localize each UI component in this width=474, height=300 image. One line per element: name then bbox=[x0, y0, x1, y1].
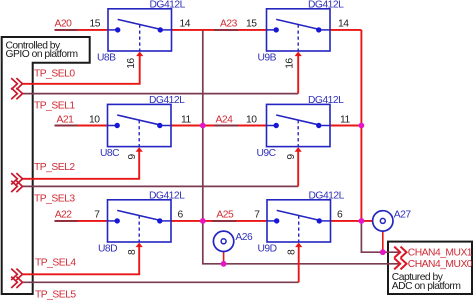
svg-text:U9B: U9B bbox=[258, 53, 277, 64]
U9D pin 7 stub bbox=[267, 220, 275, 222]
wire U9C pin 11 output bbox=[330, 125, 361, 127]
U9C right contact dot bbox=[316, 123, 321, 128]
svg-text:14: 14 bbox=[180, 19, 191, 30]
wire net label A25 underline bbox=[212, 220, 236, 222]
analog switch U8C (DG412L) bbox=[89, 95, 191, 160]
U8C control dashed line bbox=[138, 120, 140, 147]
svg-text:9: 9 bbox=[127, 154, 138, 160]
wire testpoint A26 stub bbox=[223, 252, 225, 264]
svg-text:14: 14 bbox=[338, 19, 349, 30]
off-page connector CHAN4_MUX0 bbox=[394, 258, 406, 269]
U8B pin 15 stub bbox=[108, 29, 116, 31]
wire net label A23 underline bbox=[214, 29, 238, 31]
U8B pin 14 stub bbox=[163, 29, 172, 31]
U8C left contact dot bbox=[115, 123, 120, 128]
wire U9B pin 14 output bbox=[330, 29, 361, 31]
wire TP_SEL4 to U8D control pin 8 bbox=[22, 247, 139, 274]
wire CHAN4_MUX1: from junction down and right to connector bbox=[361, 221, 400, 252]
svg-text:10: 10 bbox=[89, 114, 100, 125]
U9C pin 11 stub bbox=[321, 125, 330, 127]
U9D body bbox=[267, 200, 331, 242]
wire U9B control pin 16 drop to TP_SEL1 bbox=[297, 56, 299, 94]
U8C pin 11 stub bbox=[162, 125, 171, 127]
U8B right contact dot bbox=[158, 27, 163, 32]
U8C pin 10 stub bbox=[108, 125, 116, 127]
wire net label A24 underline bbox=[214, 125, 238, 127]
junction U9C.11 / bus bbox=[359, 123, 365, 129]
svg-text:TP_SEL2: TP_SEL2 bbox=[34, 162, 75, 173]
wire net TP_SEL3 horizontal run bbox=[22, 185, 298, 187]
svg-text:DG412L: DG412L bbox=[150, 0, 186, 10]
wire TP_SEL0 to U8B control pin 16 bbox=[22, 56, 139, 84]
U8C right contact dot bbox=[157, 123, 162, 128]
U8D left contact dot bbox=[115, 218, 120, 223]
junction A27 stub / CHAN4_MUX1 bbox=[380, 249, 386, 255]
U9B pin 14 stub bbox=[321, 29, 330, 31]
svg-text:TP_SEL5: TP_SEL5 bbox=[35, 289, 76, 300]
svg-text:7: 7 bbox=[254, 210, 260, 221]
U8D control pin arrow bbox=[136, 243, 143, 248]
wire net A23: U8B pin 14 to U9B pin 15 bbox=[172, 29, 267, 31]
U8D control dashed line bbox=[138, 216, 140, 243]
svg-text:9: 9 bbox=[286, 154, 297, 160]
wire net label A20 underline bbox=[55, 29, 78, 31]
wire U9C control pin 9 drop to TP_SEL3 bbox=[297, 151, 299, 186]
wire TP_SEL2 to U8C control pin 9 bbox=[22, 151, 139, 178]
svg-text:U9D: U9D bbox=[258, 244, 277, 255]
U8B switch arm bbox=[118, 19, 160, 29]
svg-text:A25: A25 bbox=[216, 210, 234, 221]
off-page connector TP_SEL3 bbox=[11, 181, 22, 192]
analog switch U8D (DG412L) bbox=[94, 190, 185, 255]
wire net label A22 underline bbox=[55, 220, 78, 222]
wire U9D pin 6 output to testpoint A27 bbox=[331, 220, 373, 222]
svg-text:6: 6 bbox=[337, 210, 343, 221]
wire net TP_SEL1 horizontal run bbox=[22, 93, 298, 95]
svg-text:16: 16 bbox=[126, 58, 137, 69]
U8C switch arm bbox=[117, 115, 159, 125]
svg-text:16: 16 bbox=[285, 58, 296, 69]
U8D pin 6 stub bbox=[162, 220, 171, 222]
svg-text:A23: A23 bbox=[220, 19, 238, 30]
U8B body bbox=[108, 9, 172, 51]
svg-text:10: 10 bbox=[246, 114, 257, 125]
svg-text:DG412L: DG412L bbox=[149, 190, 185, 201]
svg-text:8: 8 bbox=[127, 249, 138, 255]
wire vertical joining U9B/U9C/U9D outputs bbox=[360, 30, 362, 221]
off-page connector TP_SEL1 bbox=[11, 88, 22, 99]
svg-text:U8C: U8C bbox=[100, 148, 120, 159]
U8B left contact dot bbox=[115, 27, 120, 32]
off-page connector CHAN4_MUX1 bbox=[394, 247, 406, 258]
wire net A24: U8C pin 11 to U9C pin 10 bbox=[171, 125, 267, 127]
junction U8C.11 / bus bbox=[200, 123, 206, 129]
svg-text:CHAN4_MUX1: CHAN4_MUX1 bbox=[408, 248, 473, 259]
testpoint A26 circle bbox=[213, 231, 233, 251]
annotation box "Captured by ADC on platform" bbox=[388, 242, 472, 294]
U9D control pin arrow bbox=[295, 243, 302, 248]
svg-text:8: 8 bbox=[287, 249, 298, 255]
svg-text:DG412L: DG412L bbox=[309, 190, 345, 201]
U8C control pin arrow bbox=[136, 147, 143, 152]
U8D switch arm bbox=[117, 210, 159, 220]
U9B body bbox=[267, 9, 331, 51]
analog switch U9B (DG412L) bbox=[246, 0, 349, 69]
testpoint A27 circle bbox=[373, 211, 393, 231]
svg-text:ADC on platform: ADC on platform bbox=[392, 281, 461, 292]
U9B control pin arrow bbox=[295, 52, 302, 57]
off-page connector TP_SEL2 bbox=[11, 173, 22, 184]
svg-text:A22: A22 bbox=[55, 210, 73, 221]
junction A26 stub / CHAN4_MUX0 bbox=[221, 261, 227, 267]
U9C body bbox=[267, 104, 331, 146]
U9C left contact dot bbox=[274, 123, 279, 128]
svg-text:A26: A26 bbox=[235, 232, 253, 243]
U8D right contact dot bbox=[157, 218, 162, 223]
off-page connector TP_SEL5 bbox=[11, 277, 22, 288]
svg-text:15: 15 bbox=[246, 19, 257, 30]
junction U8D.6 / bus bbox=[200, 218, 206, 224]
wire net A20 into U8B pin 15 bbox=[55, 29, 109, 31]
wire CHAN4_MUX0 bus: vertical from U8B/U8C/U8D outputs down and right to connector bbox=[203, 30, 401, 264]
svg-text:DG412L: DG412L bbox=[308, 95, 344, 106]
U9C control pin arrow bbox=[295, 147, 302, 152]
U9C control dashed line bbox=[297, 120, 299, 147]
wire net A21 into U8C pin 10 bbox=[55, 125, 108, 127]
wire U9D control pin 8 drop to TP_SEL5 bbox=[298, 247, 300, 282]
svg-text:U8B: U8B bbox=[97, 53, 116, 64]
analog switch U9C (DG412L) bbox=[246, 95, 350, 160]
svg-text:A24: A24 bbox=[216, 114, 234, 125]
wire testpoint A27 stub bbox=[382, 231, 384, 252]
wire net A22 into U8D pin 7 bbox=[55, 220, 108, 222]
svg-text:TP_SEL3: TP_SEL3 bbox=[34, 194, 75, 205]
svg-text:GPIO on platform: GPIO on platform bbox=[6, 49, 78, 60]
U9D right contact dot bbox=[317, 218, 322, 223]
U9D pin 6 stub bbox=[322, 220, 331, 222]
U8B control dashed line bbox=[139, 25, 141, 52]
wire net label A21 underline bbox=[55, 125, 78, 127]
svg-text:U9C: U9C bbox=[257, 148, 277, 159]
U8D pin 7 stub bbox=[108, 220, 116, 222]
U9B pin 15 stub bbox=[267, 29, 275, 31]
svg-text:11: 11 bbox=[340, 114, 350, 125]
svg-text:U8D: U8D bbox=[98, 244, 117, 255]
svg-text:TP_SEL4: TP_SEL4 bbox=[35, 258, 76, 269]
U8D body bbox=[108, 200, 172, 242]
analog switch U8B (DG412L) bbox=[90, 0, 191, 69]
svg-text:DG412L: DG412L bbox=[308, 0, 344, 10]
U9B left contact dot bbox=[274, 27, 279, 32]
svg-text:6: 6 bbox=[178, 210, 184, 221]
svg-text:TP_SEL1: TP_SEL1 bbox=[34, 100, 75, 111]
wire net A25: U8D pin 6 to U9D pin 7 bbox=[171, 220, 267, 222]
U9B right contact dot bbox=[316, 27, 321, 32]
svg-text:DG412L: DG412L bbox=[149, 95, 185, 106]
svg-text:A27: A27 bbox=[394, 209, 412, 220]
svg-text:TP_SEL0: TP_SEL0 bbox=[34, 68, 75, 79]
annotation callout "Controlled by GPIO on platform" bbox=[2, 37, 90, 294]
svg-text:A20: A20 bbox=[55, 19, 73, 30]
U9D left contact dot bbox=[274, 218, 279, 223]
U9B switch arm bbox=[276, 19, 318, 29]
svg-text:11: 11 bbox=[181, 114, 191, 125]
svg-text:15: 15 bbox=[90, 19, 101, 30]
U9C switch arm bbox=[276, 115, 318, 125]
U8C body bbox=[108, 104, 172, 146]
svg-text:A21: A21 bbox=[57, 114, 75, 125]
svg-text:7: 7 bbox=[94, 210, 100, 221]
junction U9D.6 / bus bbox=[359, 218, 365, 224]
U9D switch arm bbox=[277, 210, 319, 220]
U8B control pin arrow bbox=[136, 52, 143, 57]
svg-text:CHAN4_MUX0: CHAN4_MUX0 bbox=[408, 259, 473, 270]
U9B control dashed line bbox=[297, 25, 299, 52]
off-page connector TP_SEL0 bbox=[11, 78, 22, 89]
U9C pin 10 stub bbox=[267, 125, 275, 127]
analog switch U9D (DG412L) bbox=[254, 190, 344, 255]
U9D control dashed line bbox=[298, 216, 300, 243]
wire net TP_SEL5 horizontal run bbox=[22, 281, 298, 283]
off-page connector TP_SEL4 bbox=[11, 269, 22, 280]
